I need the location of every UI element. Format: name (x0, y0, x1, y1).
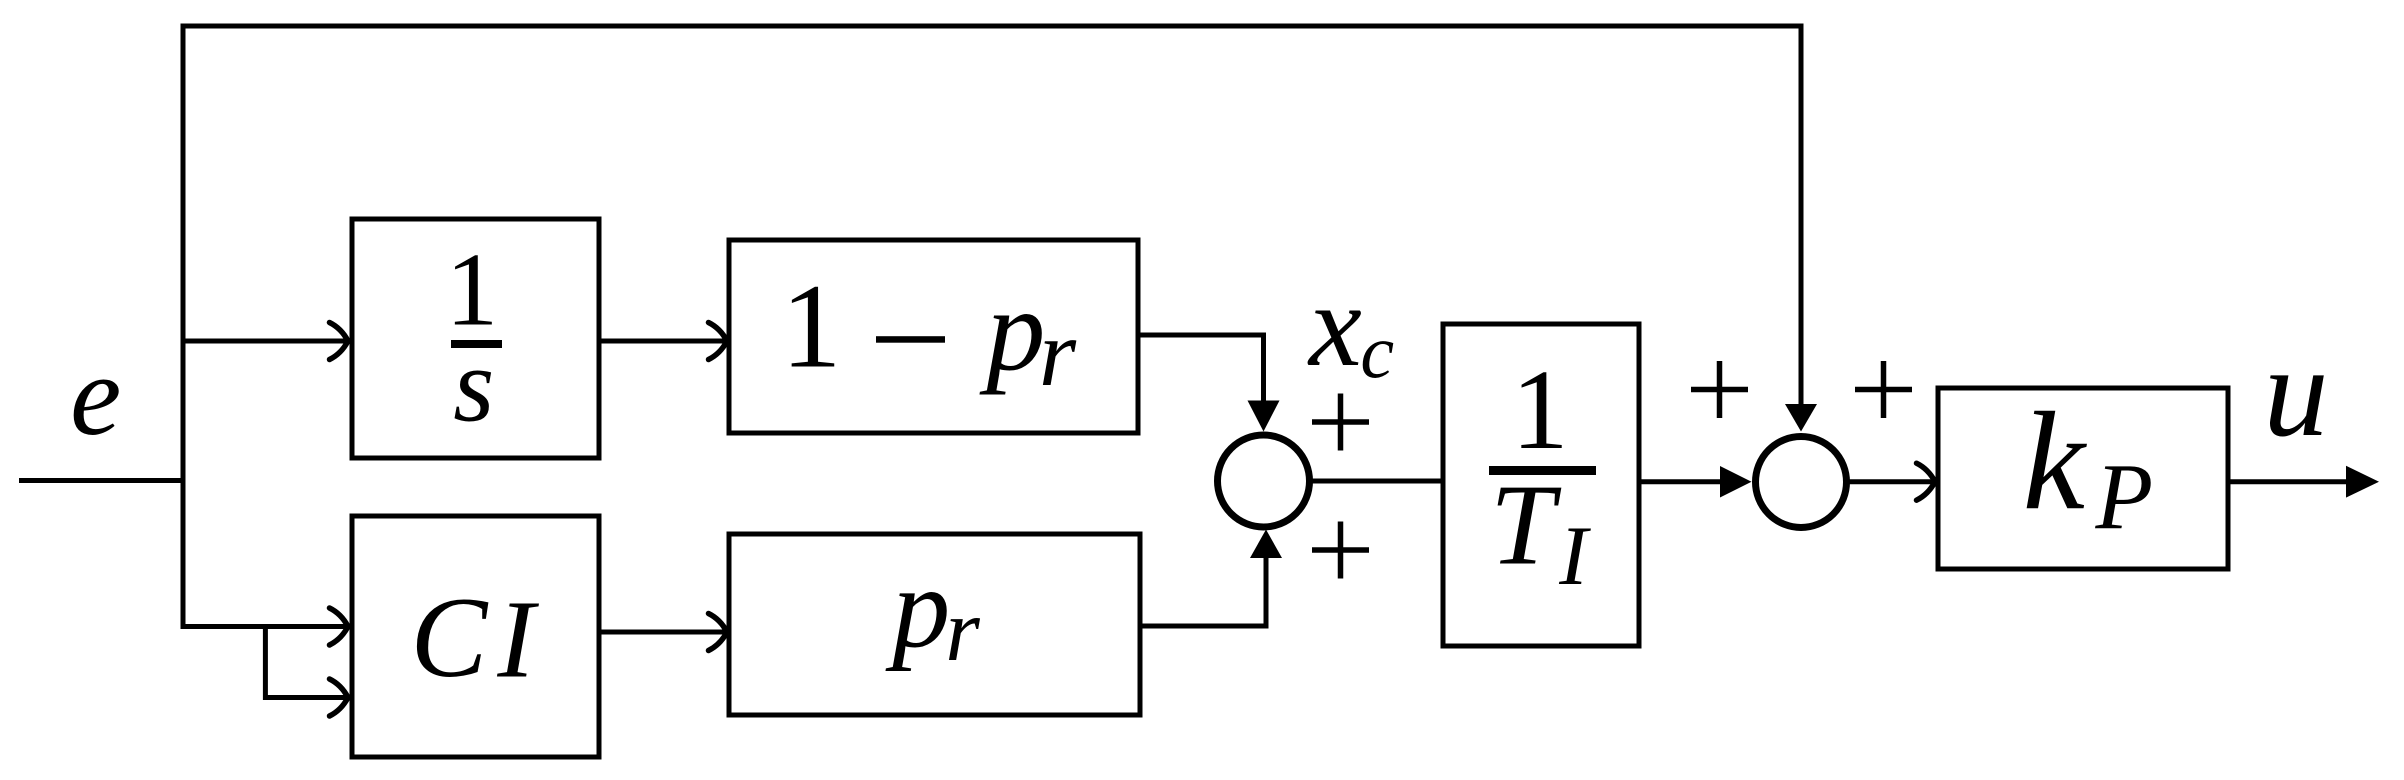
fraction bar 1/s (451, 340, 502, 348)
svg-text:1: 1 (1511, 346, 1568, 473)
arrowhead into block pr (709, 614, 728, 651)
svg-text:p: p (885, 545, 950, 673)
plus sign sum1 upper (1312, 394, 1369, 451)
svg-text:x: x (1307, 259, 1362, 391)
svg-text:C: C (411, 573, 489, 701)
minus sign in 1-pr (876, 336, 945, 343)
svg-text:T: T (1490, 462, 1562, 590)
wire feedback top (181, 24, 1802, 29)
summing junction sum1 (1218, 435, 1310, 527)
block 1/TI gain (1443, 324, 1639, 646)
arrowhead up into sum1 (1250, 530, 1282, 559)
svg-text:r: r (1039, 300, 1077, 406)
arrowhead into block kP (1917, 463, 1936, 500)
block CI (352, 516, 599, 757)
plus sign sum2 left (1691, 361, 1748, 418)
arrowhead output u (2346, 466, 2379, 498)
block pr gain (729, 534, 1140, 715)
svg-text:e: e (70, 331, 121, 459)
block kP gain (1938, 388, 2228, 569)
svg-text:P: P (2095, 446, 2154, 550)
wire CI to pr (599, 630, 724, 635)
svg-text:c: c (1360, 311, 1394, 395)
wire input branch vertical (181, 24, 186, 630)
svg-text:I: I (1558, 509, 1591, 603)
arrowhead into block 1-pr (709, 323, 728, 360)
arrowhead right into sum2 (1720, 466, 1752, 498)
arrowhead into block CI lower (330, 679, 349, 716)
block 1-pr gain (729, 240, 1138, 433)
wire pr to sum1 (1140, 556, 1266, 626)
wire feedback drop (1799, 24, 1804, 408)
svg-text:r: r (945, 582, 980, 680)
arrowhead into block CI upper (330, 608, 349, 645)
fraction bar 1/TI (1489, 466, 1596, 475)
svg-text:k: k (2023, 384, 2088, 539)
svg-text:1: 1 (781, 260, 842, 394)
svg-text:s: s (453, 327, 494, 444)
wire kP output u (2228, 479, 2348, 484)
wire 1-pr to sum1 (1138, 335, 1264, 403)
wire sum2 to kP (1848, 479, 1932, 484)
summing junction sum2 (1756, 437, 1847, 528)
plus sign sum1 lower (1312, 522, 1369, 579)
arrowhead down into sum1 (1248, 401, 1280, 432)
svg-text:u: u (2264, 320, 2329, 464)
wire TI to sum2 (1639, 479, 1722, 484)
svg-text:I: I (496, 577, 539, 701)
wire sum1 to TI block (1310, 479, 1445, 484)
block 1/s integrator (352, 219, 599, 458)
arrowhead into block 1/s (330, 323, 349, 360)
svg-text:p: p (979, 265, 1045, 396)
wire e to CI upper (181, 624, 346, 629)
wire e to integrator (183, 339, 345, 344)
wire e to CI lower branch (265, 625, 345, 698)
arrowhead down into sum2 (1785, 404, 1817, 432)
wire integrator to 1-pr (599, 339, 724, 344)
wire input e (19, 478, 183, 483)
plus sign sum2 right (1855, 361, 1912, 418)
